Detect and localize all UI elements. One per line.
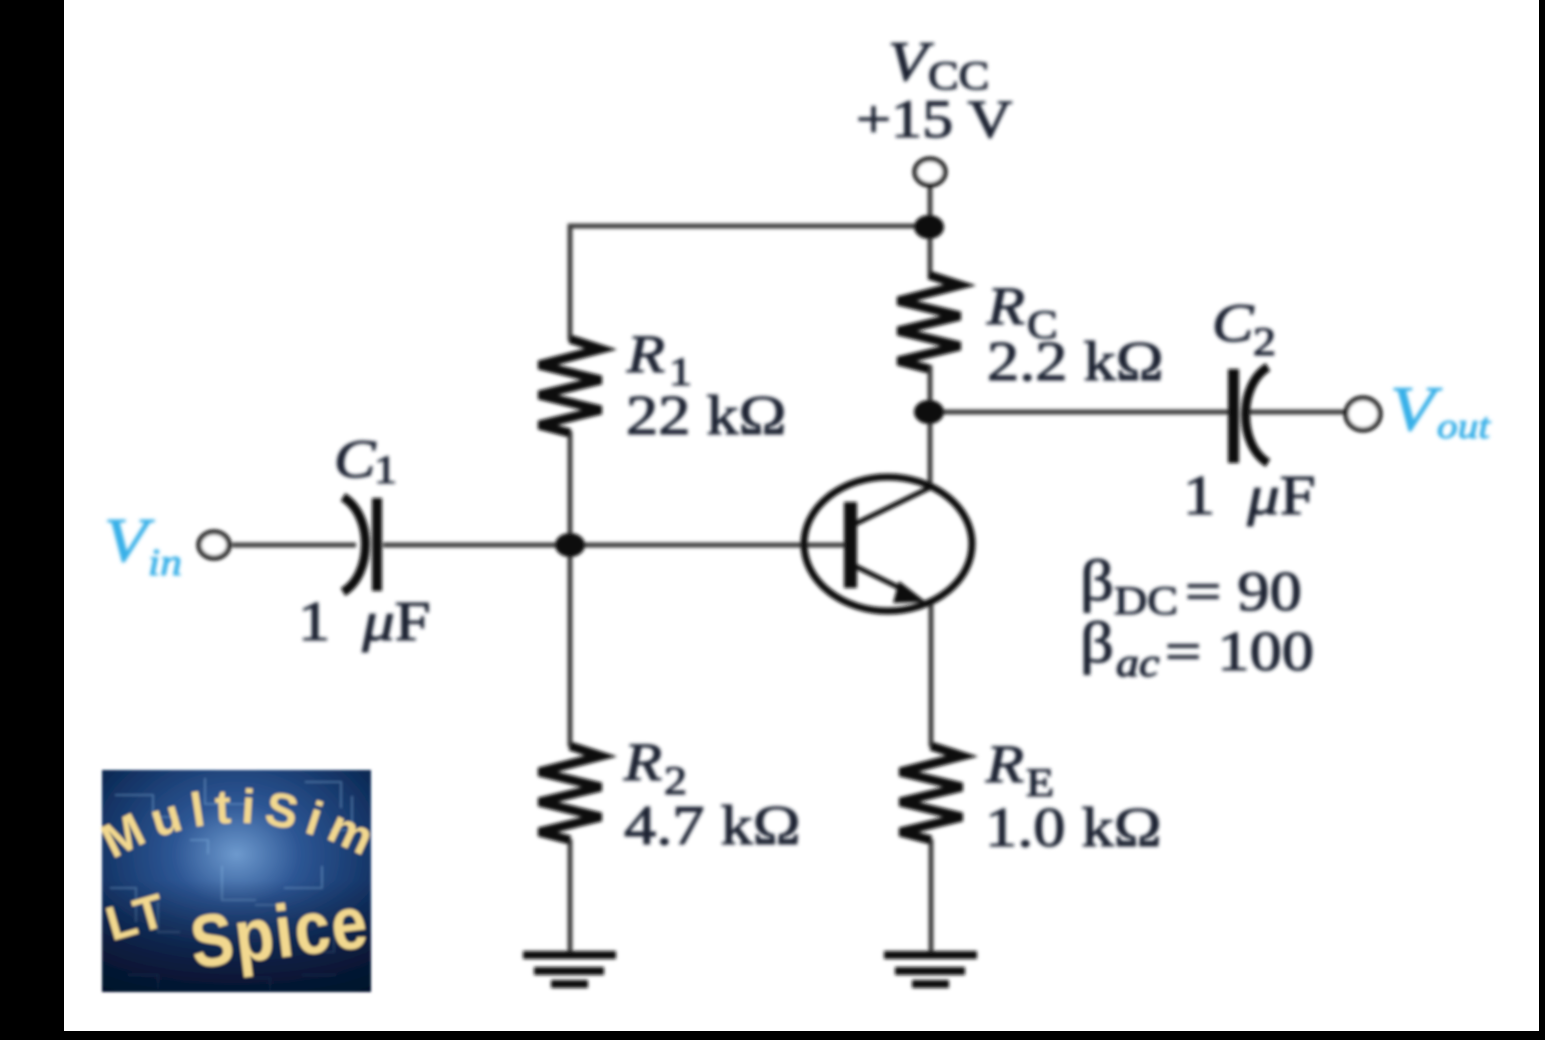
svg-text:2.2 kΩ: 2.2 kΩ	[987, 331, 1164, 393]
svg-text:+15 V: +15 V	[856, 89, 1012, 149]
svg-text:1.0 kΩ: 1.0 kΩ	[985, 797, 1162, 859]
svg-text:out: out	[1437, 406, 1491, 446]
svg-text:C: C	[1212, 293, 1255, 353]
svg-text:in: in	[148, 542, 182, 584]
svg-text:R: R	[623, 732, 662, 792]
svg-text:4.7 kΩ: 4.7 kΩ	[624, 795, 801, 857]
svg-text:β: β	[1080, 548, 1114, 613]
svg-text:R: R	[985, 734, 1024, 794]
svg-text:V: V	[888, 31, 934, 93]
svg-text:ac: ac	[1116, 642, 1159, 686]
svg-text:V: V	[1390, 373, 1442, 444]
svg-text:1: 1	[374, 449, 397, 493]
svg-text:2: 2	[1253, 321, 1276, 365]
svg-text:22 kΩ: 22 kΩ	[626, 385, 787, 447]
svg-text:β: β	[1080, 610, 1114, 675]
svg-text:C: C	[334, 429, 377, 489]
svg-text:R: R	[626, 324, 665, 384]
svg-text:= 100: = 100	[1165, 621, 1314, 683]
svg-text:1 μF: 1 μF	[1183, 465, 1316, 527]
svg-text:R: R	[986, 276, 1025, 336]
svg-text:= 90: = 90	[1185, 561, 1302, 623]
svg-text:1 μF: 1 μF	[298, 591, 431, 653]
svg-text:DC: DC	[1114, 580, 1178, 624]
